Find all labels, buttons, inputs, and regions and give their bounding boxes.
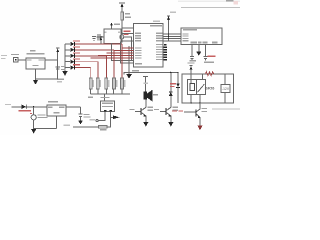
svg-text:OMRON 5: OMRON 5 (205, 87, 215, 91)
svg-text:-12V: -12V (222, 87, 230, 91)
